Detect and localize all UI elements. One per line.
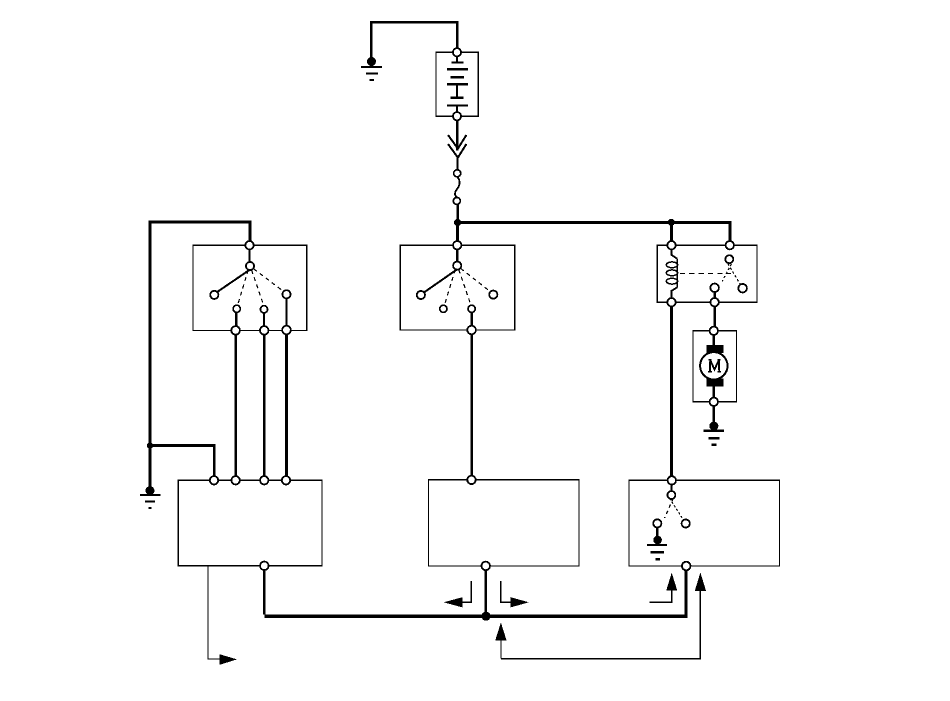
wire left feed (switch S1 to ground rail) xyxy=(150,222,250,487)
module bottom-middle xyxy=(429,476,580,571)
wire relay contact to motor xyxy=(713,306,715,326)
switch S2 (middle multi-position) xyxy=(400,241,515,334)
wire S1 output 2 xyxy=(263,335,266,477)
wire bottom return link xyxy=(501,591,700,659)
wire relay to bottom-right module xyxy=(670,306,673,476)
module bottom-left xyxy=(178,476,322,570)
wire chevron to fusible link xyxy=(456,158,458,170)
wire S2 output to module xyxy=(470,334,473,476)
node junction battery bus xyxy=(454,219,461,226)
wire motor to ground xyxy=(713,406,715,422)
switch S1 (left multi-position) xyxy=(193,241,307,335)
connector (double chevron) xyxy=(448,135,466,158)
motor M1 xyxy=(693,327,737,406)
arrow up (below bus junction) xyxy=(495,623,506,659)
ground G2 (motor) xyxy=(704,422,725,445)
wire fusible link to junction xyxy=(456,204,458,221)
node junction left rail xyxy=(147,442,153,448)
arrow up (right end of return link) xyxy=(695,573,706,591)
wire battery negative down xyxy=(456,120,458,150)
wire left rail branch to module xyxy=(150,446,214,477)
ground G1 (top left) xyxy=(361,57,382,80)
wire L-lead (bottom-right module left arrow) xyxy=(650,591,672,603)
wire S1 output 1 xyxy=(234,335,237,477)
node junction relay coil feed xyxy=(668,219,675,226)
arrow right flow indicator xyxy=(501,581,529,607)
wire bottom-left module output lead xyxy=(208,566,220,659)
wire bottom-middle module to bus junction xyxy=(485,570,488,614)
arrow left flow indicator xyxy=(444,581,472,607)
wire bottom-left module to bus xyxy=(263,570,266,614)
wire junction to switch S2 xyxy=(456,223,459,242)
node junction bottom bus xyxy=(481,612,490,621)
arrow out (bottom-left) xyxy=(220,654,238,665)
ground G3 (left rail) xyxy=(140,486,160,508)
ground G4 (inside bottom-right module) xyxy=(647,536,667,560)
wire S1 output 3 xyxy=(285,334,288,476)
wire main bus to relay xyxy=(458,222,730,241)
relay K1 xyxy=(657,241,757,306)
battery B1 xyxy=(436,48,478,120)
wire battery positive to ground xyxy=(371,22,457,57)
fusible link F1 xyxy=(453,170,460,205)
arrow up (bottom-right module left) xyxy=(666,573,677,591)
wire bottom bus xyxy=(264,570,686,617)
module bottom-right with switch xyxy=(629,476,780,570)
wire junction to relay coil xyxy=(670,222,673,241)
